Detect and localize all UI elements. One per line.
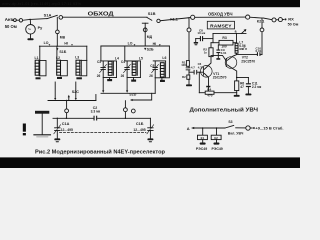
warning mark ! <box>23 124 26 132</box>
wire riser L3 to S2C contact <box>75 82 77 99</box>
ground under R6 <box>234 95 240 97</box>
svg-text:S2C: S2C <box>72 90 80 94</box>
svg-text:S1Б: S1Б <box>59 50 66 54</box>
svg-text:0.01: 0.01 <box>221 51 227 55</box>
wire МД to band bus right <box>144 32 146 46</box>
svg-text:100: 100 <box>221 45 227 49</box>
svg-text:S3: S3 <box>228 120 232 124</box>
ground under C1Б <box>147 138 153 140</box>
connector X1 (coax jack, two circles) <box>14 19 17 22</box>
svg-text:L1: L1 <box>35 56 39 60</box>
svg-text:Вкл. УВЧ: Вкл. УВЧ <box>228 132 244 136</box>
svg-text:2SC2570: 2SC2570 <box>213 76 227 80</box>
svg-text:С4: С4 <box>121 60 125 64</box>
svg-text:RX: RX <box>288 17 294 22</box>
wire <box>195 16 246 18</box>
svg-text:МД: МД <box>147 35 153 39</box>
svg-text:2.2 мк: 2.2 мк <box>252 85 262 89</box>
wire S2D to tuning bus <box>124 101 126 119</box>
L3 core line <box>80 60 82 75</box>
capacitor C9 <box>217 45 219 49</box>
svg-text:50 Ом: 50 Ом <box>288 23 299 27</box>
core slug under L5 <box>133 78 135 80</box>
core slug under L1 <box>36 77 41 79</box>
tuning bus bottom <box>53 117 93 119</box>
connector (circle) on S2C drop <box>65 109 69 113</box>
core slug under L4 <box>109 78 111 80</box>
wire S1Б feed continues to L2 <box>56 46 58 60</box>
svg-text:RAMSEY: RAMSEY <box>210 23 232 29</box>
resistor R2 <box>187 75 190 79</box>
connector (circle) on top line <box>191 15 195 19</box>
capacitor C6 <box>194 70 195 75</box>
svg-text:1к: 1к <box>204 50 208 54</box>
chassis shaft symbol with ground <box>35 111 49 114</box>
wire bypass line S1A to S1В <box>63 16 147 18</box>
wire drop bus to L1 core <box>39 46 41 75</box>
wire L7 to collector node <box>236 53 238 54</box>
svg-text:L3: L3 <box>75 56 79 60</box>
wire riser L2 to S2C contact <box>54 82 56 99</box>
svg-text:wmv-dp-tx1-01 [rec-1149] .mp3: wmv-dp-tx1-01 [rec-1149] .mp3 17:11 93% <box>2 1 81 6</box>
switch S2D select bus <box>101 92 155 94</box>
svg-text:S1В: S1В <box>148 11 156 16</box>
svg-text:Дополнительный УВЧ: Дополнительный УВЧ <box>190 107 259 114</box>
svg-text:МВ: МВ <box>60 35 66 39</box>
connector МД (circle) <box>143 28 147 32</box>
svg-text:12...495: 12...495 <box>61 128 73 132</box>
wire to Ру generator <box>29 19 31 24</box>
L4 side loop <box>116 61 118 78</box>
ground under К1 <box>200 143 206 145</box>
ground under Ру <box>27 38 33 40</box>
capacitor C10 <box>257 52 258 56</box>
tank3: wire drop via side loop <box>155 46 169 78</box>
ground under К2 <box>214 143 220 145</box>
inductor L7 <box>235 43 238 53</box>
L1 side loop <box>39 60 46 75</box>
svg-text:А: А <box>187 126 190 131</box>
top video bar <box>0 0 300 7</box>
switch S2C select bus <box>48 100 96 102</box>
wire collector to C10 <box>237 54 257 56</box>
wire rail to L7/R3 node <box>236 34 238 44</box>
L5 core line <box>136 61 138 75</box>
svg-text:4.7: 4.7 <box>191 65 195 69</box>
capacitor C8 (input bypass to ground) <box>203 38 213 40</box>
band bus LO/HI right group <box>101 45 169 47</box>
svg-text:РЭС49: РЭС49 <box>212 147 223 151</box>
variable capacitor C1Б <box>149 118 151 127</box>
L5 side loop <box>139 61 141 78</box>
svg-text:С1А: С1А <box>62 122 70 126</box>
resistor R3 <box>211 42 219 44</box>
svg-text:R2: R2 <box>182 75 186 79</box>
box RAMSEY <box>207 21 234 29</box>
supply arrow <box>242 31 245 34</box>
svg-text:L6: L6 <box>162 56 166 60</box>
tank2: wire drop <box>124 46 126 61</box>
svg-text:0.01: 0.01 <box>256 49 262 53</box>
wire C6 to VT1 base <box>197 71 203 73</box>
svg-text:10 мк: 10 мк <box>197 31 205 35</box>
relay К1 coil <box>202 128 204 135</box>
ground under C1A <box>54 138 60 140</box>
svg-text:мкГн: мкГн <box>239 47 247 51</box>
svg-text:R3: R3 <box>222 36 226 40</box>
transistor VT2 2SC2570 <box>225 57 237 69</box>
wire S2Б feed from S1В pole <box>142 22 148 24</box>
svg-text:LO: LO <box>44 41 49 45</box>
svg-text:12...495: 12...495 <box>133 128 145 132</box>
L4 core line <box>112 61 114 75</box>
wire drop bus to L3 via side loop <box>80 46 87 76</box>
svg-text:R4: R4 <box>207 87 211 91</box>
svg-text:К2.1: К2.1 <box>257 20 265 24</box>
svg-text:+9...15 В Стаб.: +9...15 В Стаб. <box>255 126 283 131</box>
resistor R1 <box>186 61 189 67</box>
switch S2Б wiper arrow <box>144 48 146 51</box>
capacitor C7 on input vertical <box>186 66 191 69</box>
connector (circle) supply <box>246 126 250 130</box>
svg-text:LO: LO <box>128 42 133 46</box>
svg-text:3.3 мк: 3.3 мк <box>91 110 101 114</box>
generator Ру (circle with ~) <box>26 25 36 35</box>
wire to C6 <box>189 71 193 73</box>
svg-text:ОБХОД УВЧ: ОБХОД УВЧ <box>208 11 233 16</box>
resistor R6 <box>236 77 237 78</box>
core slug under L3 <box>76 77 82 79</box>
svg-text:S2Б: S2Б <box>147 48 154 52</box>
svg-text:26: 26 <box>97 74 101 78</box>
resistor R2 <box>209 48 213 57</box>
svg-text:470: 470 <box>207 94 212 98</box>
svg-text:С3: С3 <box>97 60 101 64</box>
connector (circle) on amp input <box>187 28 191 32</box>
svg-text:50 Ом: 50 Ом <box>5 24 17 29</box>
ground under C11 <box>245 94 251 96</box>
svg-text:НI: НI <box>153 42 157 46</box>
svg-text:47: 47 <box>240 85 244 89</box>
core slug under L6 <box>161 78 163 80</box>
L2 side loop <box>61 60 68 75</box>
wire <box>250 16 262 19</box>
svg-text:НI: НI <box>64 41 68 45</box>
tank1: wire drop <box>100 46 102 61</box>
svg-text:26: 26 <box>121 74 125 78</box>
mechanical gang link (dashed) <box>60 132 147 134</box>
resistor R4 <box>198 72 200 93</box>
bottom video bar <box>0 157 300 168</box>
svg-text:С1Б: С1Б <box>136 122 144 126</box>
wire МВ to band bus <box>56 34 58 47</box>
svg-text:ОБХОД: ОБХОД <box>88 12 114 18</box>
svg-text:L4: L4 <box>115 56 119 60</box>
wire VT1 collector to VT2 base <box>211 55 226 61</box>
switch S2D wiper arm <box>132 93 152 100</box>
svg-text:S1A: S1A <box>44 12 52 17</box>
svg-text:26: 26 <box>149 74 153 78</box>
svg-text:100: 100 <box>181 63 186 67</box>
band bus LO/HI left group <box>39 45 86 47</box>
relay К2 coil <box>216 128 218 135</box>
wire amp input vertical <box>188 18 190 28</box>
svg-text:а: а <box>235 30 237 34</box>
ground at amp input bottom <box>186 84 192 86</box>
connector МВ (circle) <box>56 30 60 34</box>
capacitor C2 (series in bus) <box>94 116 95 121</box>
wire К2.1 pole down to amp output <box>261 18 263 28</box>
supply rail <box>213 32 246 34</box>
capacitor C11 <box>237 77 249 79</box>
svg-text:S2D: S2D <box>129 93 136 97</box>
variable capacitor C1A <box>56 118 58 127</box>
wire antenna to S1A pole <box>23 19 47 21</box>
svg-text:Рис.2 Модернизированный N4EY-: Рис.2 Модернизированный N4EY-преселектор <box>35 149 165 156</box>
connector (circle) on top line right <box>246 15 250 19</box>
svg-text:РЭС49: РЭС49 <box>196 147 207 151</box>
wire S1Б feed down from S1A <box>56 17 58 30</box>
wire top line to RX <box>188 16 190 18</box>
svg-text:L5: L5 <box>139 56 143 60</box>
transistor VT1 2SC2570 <box>201 66 213 78</box>
wire S2C to tuning bus <box>66 101 68 119</box>
L6 core line <box>165 61 167 77</box>
connector (circle) on S2D drop <box>124 108 128 112</box>
switch S1Б wiper arrow below bus <box>56 48 58 51</box>
svg-text:2SC2570: 2SC2570 <box>241 60 255 64</box>
core slug under L2 <box>57 77 62 79</box>
wire relay supply line <box>194 127 225 129</box>
